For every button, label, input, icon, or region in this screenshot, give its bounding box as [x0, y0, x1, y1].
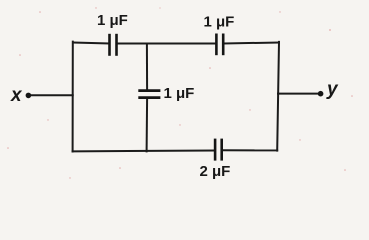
capacitor C3 1uF plates (middle branch) — [138, 91, 160, 98]
wire left rail — [72, 42, 74, 152]
wire top rail left segment — [73, 43, 109, 44]
svg-text:x: x — [10, 85, 23, 106]
svg-text:y: y — [326, 79, 339, 100]
node x terminal dot — [26, 93, 32, 99]
svg-text:1 μF: 1 μF — [97, 12, 128, 29]
node y terminal dot — [318, 91, 324, 97]
wire top rail middle segment — [118, 43, 216, 45]
svg-text:1 μF: 1 μF — [204, 13, 235, 30]
wire middle branch lower — [146, 99, 149, 152]
svg-text:2 μF: 2 μF — [200, 163, 231, 180]
wire top rail right segment — [224, 43, 279, 44]
wire right rail — [277, 42, 279, 151]
wire bottom rail left segment — [73, 150, 214, 153]
capacitor C2 1uF plates (top-right) — [216, 34, 223, 56]
capacitor C1 1uF plates (top-left) — [110, 34, 117, 56]
svg-text:1 μF: 1 μF — [164, 85, 195, 102]
wire y terminal lead — [278, 93, 320, 95]
wire middle branch upper — [146, 44, 148, 90]
wire bottom rail right segment — [223, 149, 277, 151]
wire x terminal lead — [29, 94, 73, 96]
capacitor C4 2uF plates (bottom) — [215, 139, 222, 161]
scan speckle noise — [7, 7, 353, 178]
